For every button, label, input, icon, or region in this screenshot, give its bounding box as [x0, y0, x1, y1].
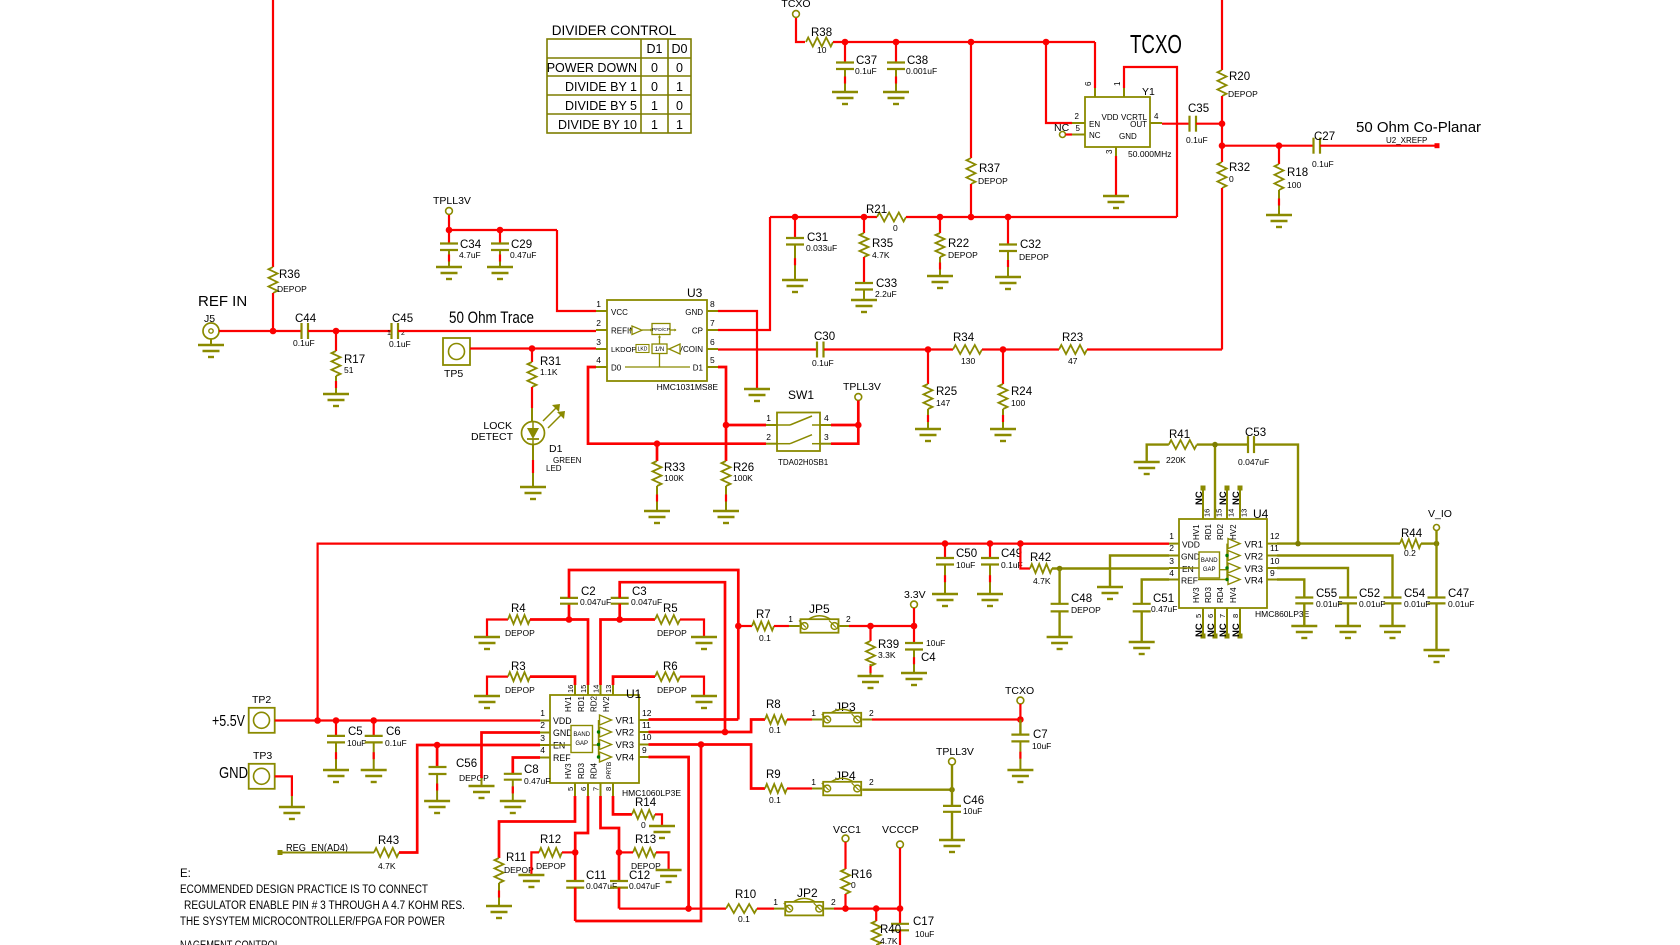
- svg-text:HV2: HV2: [1229, 524, 1238, 540]
- svg-text:C30: C30: [814, 331, 835, 343]
- ground for C5: [323, 769, 349, 771]
- wire R36 to REF IN line: [272, 293, 274, 331]
- svg-text:R14: R14: [635, 797, 657, 809]
- svg-text:5: 5: [710, 355, 715, 365]
- U3 pin 6 VCOIN stub: [707, 348, 718, 350]
- svg-text:U4: U4: [1253, 507, 1269, 521]
- U3 internal PFD/CP block: [642, 329, 652, 331]
- ground for R24: [990, 428, 1016, 430]
- wire R13 to ground: [656, 852, 669, 869]
- wire C27 to U2_XREFP terminal: [1320, 145, 1437, 147]
- node junction C50: [942, 540, 949, 547]
- svg-text:16: 16: [566, 685, 575, 693]
- U4 right pin stubs: [1267, 543, 1277, 545]
- svg-text:LED: LED: [546, 464, 562, 473]
- U3 pin 8 GND stub: [707, 310, 718, 312]
- svg-text:2: 2: [846, 614, 851, 624]
- svg-text:HV2: HV2: [602, 696, 611, 712]
- svg-text:3: 3: [1169, 556, 1174, 566]
- svg-text:1: 1: [651, 118, 658, 132]
- svg-text:CP: CP: [692, 327, 703, 336]
- ground for Y1: [1103, 195, 1129, 197]
- LED D1: [522, 422, 545, 445]
- U3 pin 7 CP stub: [707, 329, 718, 331]
- wire U3 D1 pin5 to SW1 pin1: [718, 367, 726, 425]
- wire C11 bottom to VR3 return: [574, 888, 577, 921]
- U1 band gap block: [571, 726, 593, 753]
- capacitor C6: [373, 721, 375, 736]
- capacitor C31: [794, 217, 796, 238]
- wire R43 to EN riser: [399, 745, 540, 853]
- node junction C38: [893, 39, 900, 46]
- wire R20 to junction: [1221, 96, 1223, 162]
- SW1 pin stubs and numbers: [766, 424, 777, 426]
- svg-text:TCXO: TCXO: [1130, 29, 1182, 59]
- node junction R22: [937, 214, 944, 221]
- wire U3 D0 pin4 to SW1 pin2: [588, 367, 766, 444]
- wire R6 to ground: [680, 677, 704, 695]
- svg-text:C50: C50: [956, 548, 977, 560]
- svg-text:1: 1: [811, 777, 816, 787]
- svg-text:DEPOP: DEPOP: [1019, 252, 1049, 262]
- svg-text:VDD: VDD: [1182, 540, 1200, 550]
- ground for R5: [691, 636, 717, 638]
- wire Y1 VDD pin6 up to rail: [1094, 42, 1096, 88]
- node junction C37: [842, 39, 849, 46]
- svg-text:10uF: 10uF: [347, 738, 366, 748]
- svg-text:GND: GND: [685, 308, 703, 317]
- svg-text:DEPOP: DEPOP: [657, 685, 687, 695]
- wire EN branch to Y1 pin2: [1046, 42, 1072, 123]
- wire JP5 pin2 to 3.3V: [849, 625, 914, 627]
- svg-text:R12: R12: [540, 834, 561, 846]
- wire vertical net to R36 from top edge: [272, 0, 274, 267]
- wire RD2 riser through C3 junction to R5: [601, 620, 656, 686]
- svg-text:R36: R36: [279, 269, 300, 281]
- svg-text:R40: R40: [880, 924, 901, 936]
- wire R37 to loop bus: [970, 184, 972, 217]
- svg-text:0.47uF: 0.47uF: [1151, 604, 1177, 614]
- ground for C32: [995, 276, 1021, 278]
- svg-text:VR3: VR3: [616, 740, 634, 751]
- wire VCC1 to R16: [844, 842, 846, 869]
- wire U4 VR2 pin11 to C54: [1277, 556, 1393, 598]
- svg-text:R34: R34: [953, 332, 975, 344]
- resistor R23: [1059, 345, 1087, 354]
- svg-text:4: 4: [596, 355, 601, 365]
- ground for U4 GND: [1097, 586, 1123, 588]
- capacitor C5: [335, 721, 337, 736]
- ground for R18: [1266, 214, 1292, 216]
- svg-text:8: 8: [710, 299, 715, 309]
- svg-text:C44: C44: [295, 313, 317, 325]
- svg-text:D1: D1: [647, 42, 663, 56]
- svg-text:0: 0: [676, 99, 683, 113]
- wire R34 to R23: [982, 348, 1059, 350]
- wire junction to C45: [336, 330, 391, 332]
- resistor R18: [1278, 146, 1280, 164]
- svg-text:12: 12: [1270, 531, 1280, 541]
- U3 pin 1 VCC stub: [596, 310, 607, 312]
- svg-text:1: 1: [773, 897, 778, 907]
- svg-text:10uF: 10uF: [956, 560, 975, 570]
- svg-text:0.047uF: 0.047uF: [580, 597, 611, 607]
- capacitor C48: [1058, 569, 1060, 604]
- resistor R7: [752, 622, 774, 631]
- node junction C34: [446, 227, 453, 234]
- resistor R3: [508, 672, 530, 681]
- svg-text:PRTB: PRTB: [606, 762, 613, 779]
- U1 bottom pin stubs: [574, 783, 576, 796]
- svg-text:NC: NC: [1231, 623, 1242, 637]
- wire U4 VR1 pin12 to R44: [1277, 542, 1400, 544]
- node junction 3.3V/C4: [911, 623, 918, 630]
- svg-text:TP2: TP2: [252, 694, 271, 706]
- svg-text:NC: NC: [1218, 623, 1229, 637]
- wire ground to R41: [1147, 445, 1169, 462]
- resistor R37: [970, 42, 972, 158]
- svg-text:R42: R42: [1030, 552, 1051, 564]
- SW1 pole 1 lever: [777, 424, 790, 426]
- svg-text:DEPOP: DEPOP: [277, 284, 307, 294]
- svg-text:DEPOP: DEPOP: [504, 865, 534, 875]
- wire TCXO port to junction: [1019, 704, 1021, 720]
- wire LED to ground: [532, 444, 534, 460]
- svg-text:JP2: JP2: [797, 886, 818, 900]
- ground for C46: [939, 839, 965, 841]
- regulator U4 HMC860LP3E body: [1179, 519, 1267, 608]
- ground for R12: [518, 874, 544, 876]
- svg-text:NC: NC: [1218, 491, 1229, 505]
- ground for R41: [1134, 461, 1160, 463]
- resistor R34: [953, 345, 982, 354]
- svg-text:1/N: 1/N: [655, 347, 664, 353]
- svg-text:RD1: RD1: [1204, 523, 1213, 540]
- wire R8 to JP3: [787, 718, 812, 720]
- svg-text:4.7K: 4.7K: [872, 250, 890, 260]
- node junction C32: [1005, 214, 1012, 221]
- svg-text:5: 5: [1194, 614, 1203, 618]
- svg-text:TPLL3V: TPLL3V: [433, 195, 471, 207]
- svg-text:147: 147: [936, 398, 950, 408]
- wire JP3 pin2 to TCXO node: [872, 718, 1020, 720]
- svg-text:7: 7: [1218, 614, 1227, 618]
- wire R12 to junction: [562, 851, 575, 853]
- wire R16 to net: [844, 894, 846, 909]
- svg-text:9: 9: [642, 745, 647, 755]
- svg-text:2: 2: [831, 897, 836, 907]
- ground for R3: [474, 695, 500, 697]
- U3 internal LKD box: [636, 345, 649, 353]
- node junction R40: [873, 905, 880, 912]
- wire U1 VR1 pin12 to riser: [649, 718, 739, 721]
- svg-text:DEPOP: DEPOP: [505, 685, 535, 695]
- wire R33 to ground: [656, 486, 658, 510]
- test point TP5: [443, 338, 470, 365]
- svg-text:0.1uF: 0.1uF: [293, 338, 315, 348]
- wire D1 down to R26: [725, 425, 728, 461]
- U4 left pin stubs: [1169, 543, 1179, 545]
- U1 right pin stubs: [639, 719, 649, 721]
- svg-text:RD3: RD3: [1204, 586, 1213, 603]
- svg-text:EN: EN: [1089, 120, 1100, 129]
- svg-text:1: 1: [1169, 531, 1174, 541]
- svg-text:R21: R21: [866, 204, 887, 216]
- wire U1 VR4 pin9 drop: [649, 757, 689, 909]
- svg-text:0: 0: [676, 61, 683, 75]
- node junction R18: [1276, 142, 1283, 149]
- wire TCXO port to R38: [796, 18, 805, 42]
- svg-text:R10: R10: [735, 889, 756, 901]
- svg-text:10uF: 10uF: [1032, 741, 1051, 751]
- svg-text:DIVIDER CONTROL: DIVIDER CONTROL: [552, 23, 677, 38]
- capacitor C45: [390, 323, 392, 339]
- wire TP3 to ground: [275, 776, 292, 796]
- svg-text:R22: R22: [948, 238, 969, 250]
- regulator U1 HMC1060LP3E body: [550, 695, 639, 783]
- U3 internal divider feedback wires: [659, 336, 661, 344]
- wire SW1 pin3 to TPLL3V: [831, 425, 858, 444]
- svg-text:BAND: BAND: [573, 732, 590, 738]
- wire R38 to Y1 VDD rail: [833, 41, 1095, 43]
- wire C3 top to VR2 riser: [620, 582, 725, 732]
- node junction TPLL3V/C46: [949, 787, 955, 793]
- capacitor C32: [1007, 217, 1009, 244]
- switch SW1 TDA02H0SB1: [777, 413, 820, 452]
- svg-text:TCXO: TCXO: [781, 0, 810, 10]
- svg-text:R11: R11: [506, 852, 526, 864]
- U3 internal VCOIN buffer triangle: [669, 344, 680, 354]
- Y1 pin 4 OUT stub: [1150, 122, 1162, 124]
- svg-text:REF IN: REF IN: [198, 293, 247, 310]
- resistor R44: [1400, 539, 1421, 548]
- wire C30 to R34: [824, 348, 953, 350]
- wire U1 HV3 pin5 to R11: [499, 796, 575, 858]
- svg-text:LKDOP: LKDOP: [611, 345, 636, 354]
- svg-text:0.1uF: 0.1uF: [1312, 159, 1334, 169]
- svg-text:2: 2: [540, 720, 545, 730]
- svg-text:0: 0: [1229, 174, 1234, 184]
- wire R11 to ground: [498, 883, 500, 905]
- capacitor C4: [905, 642, 923, 644]
- wire R25 to ground: [927, 409, 929, 428]
- svg-text:1: 1: [766, 413, 771, 423]
- svg-text:R4: R4: [511, 603, 526, 615]
- ground for C4: [901, 672, 927, 674]
- wire R10 to JP2: [757, 907, 774, 909]
- svg-text:50 Ohm Trace: 50 Ohm Trace: [449, 308, 534, 327]
- ground for LED D1: [520, 486, 546, 488]
- capacitor C52: [1339, 596, 1357, 598]
- svg-text:3: 3: [1105, 149, 1114, 154]
- node junction VCCCP/C17: [897, 905, 904, 912]
- ground for R11: [486, 905, 512, 907]
- svg-text:0.1: 0.1: [769, 725, 781, 735]
- svg-text:0.2: 0.2: [1404, 548, 1416, 558]
- wire TP2 to U1 VDD pin1: [275, 719, 540, 721]
- svg-text:0.47uF: 0.47uF: [524, 776, 550, 786]
- svg-text:2: 2: [766, 432, 771, 442]
- svg-text:GND: GND: [1119, 132, 1137, 141]
- svg-text:0.1: 0.1: [738, 914, 750, 924]
- svg-text:VR4: VR4: [1245, 576, 1263, 587]
- resistor R16: [841, 869, 850, 894]
- wire R7 tap to resistor: [738, 625, 752, 627]
- resistor R42: [1030, 564, 1052, 573]
- resistor R35: [863, 217, 865, 233]
- node junction C3/R5: [616, 616, 623, 623]
- wire R3 to HV1 pin16: [530, 677, 575, 685]
- capacitor C33: [855, 282, 873, 284]
- svg-text:DEPOP: DEPOP: [505, 628, 535, 638]
- ground for R26: [713, 510, 739, 512]
- wire ground to R4: [487, 620, 508, 637]
- svg-text:4: 4: [1169, 568, 1174, 578]
- node junction R25: [925, 346, 932, 353]
- ground for R14: [649, 825, 675, 827]
- svg-text:0: 0: [641, 820, 646, 830]
- svg-text:13: 13: [604, 685, 613, 693]
- ground for C52: [1335, 625, 1361, 627]
- ground for R22: [927, 275, 953, 277]
- wire VR3 drop to C11 bottom: [575, 745, 701, 922]
- svg-text:GAP: GAP: [575, 741, 588, 747]
- ground for R25: [915, 428, 941, 430]
- svg-text:50.000MHz: 50.000MHz: [1128, 149, 1171, 159]
- node junction C35/R20/R32: [1219, 120, 1226, 127]
- resistor R41: [1169, 440, 1197, 449]
- wire ground to R3: [487, 677, 508, 695]
- svg-text:VCCCP: VCCCP: [882, 824, 919, 836]
- svg-text:100: 100: [1011, 398, 1025, 408]
- svg-text:REF: REF: [1181, 576, 1198, 586]
- node junction C44/R17: [333, 328, 340, 335]
- ground for C49: [977, 593, 1003, 595]
- ground for C34: [436, 266, 462, 268]
- U1 top pin stubs: [574, 684, 576, 695]
- svg-text:VR4: VR4: [616, 753, 634, 764]
- U4 band gap block: [1199, 552, 1220, 578]
- svg-text:C49: C49: [1001, 548, 1022, 560]
- svg-text:0.1uF: 0.1uF: [389, 339, 411, 349]
- Y1 pin 3 GND stub: [1115, 147, 1117, 156]
- svg-text:OUT: OUT: [1130, 120, 1147, 129]
- svg-text:6: 6: [1206, 614, 1215, 618]
- wire JP2 pin2 to VCCCP: [834, 907, 900, 909]
- svg-text:C7: C7: [1033, 729, 1048, 741]
- svg-text:0.1uF: 0.1uF: [812, 358, 834, 368]
- svg-text:0.033uF: 0.033uF: [806, 243, 837, 253]
- wire R32 down to R23 return: [1221, 188, 1223, 350]
- svg-text:HMC1031MS8E: HMC1031MS8E: [657, 382, 719, 392]
- capacitor C53: [1247, 436, 1249, 453]
- svg-text:TCXO: TCXO: [1005, 685, 1034, 697]
- svg-text:1: 1: [676, 80, 683, 94]
- svg-text:DIVIDE BY 10: DIVIDE BY 10: [558, 118, 637, 132]
- svg-text:VR3: VR3: [1245, 564, 1263, 575]
- svg-text:4.7K: 4.7K: [1033, 576, 1051, 586]
- node junction R12/C11: [572, 849, 579, 856]
- wire R39 to ground: [870, 664, 872, 675]
- node junction EN branch: [1043, 39, 1050, 46]
- svg-text:C17: C17: [913, 916, 934, 928]
- ground for C31: [782, 279, 808, 281]
- wire TPLL3V to rail: [448, 215, 450, 230]
- svg-text:100: 100: [1287, 180, 1301, 190]
- node junction C49: [987, 540, 994, 547]
- svg-text:HV1: HV1: [564, 696, 573, 712]
- svg-text:4: 4: [540, 745, 545, 755]
- svg-text:R32: R32: [1229, 162, 1250, 174]
- node junction R13/C12: [616, 849, 623, 856]
- svg-text:D1: D1: [693, 364, 704, 373]
- svg-text:16: 16: [1203, 509, 1212, 517]
- resistor R43: [374, 848, 399, 857]
- svg-text:TP3: TP3: [253, 750, 272, 762]
- svg-text:0.1uF: 0.1uF: [385, 738, 407, 748]
- svg-text:R6: R6: [663, 661, 678, 673]
- svg-text:HV4: HV4: [1229, 587, 1238, 603]
- svg-text:C32: C32: [1020, 239, 1041, 251]
- svg-text:3.3K: 3.3K: [878, 650, 896, 660]
- svg-text:DEPOP: DEPOP: [978, 176, 1008, 186]
- svg-text:1: 1: [540, 708, 545, 718]
- node junction R24: [1000, 346, 1007, 353]
- svg-text:15: 15: [1215, 509, 1224, 517]
- resistor R40: [875, 909, 877, 921]
- node junction V_IO/C47: [1434, 541, 1440, 547]
- svg-text:C8: C8: [524, 764, 539, 776]
- svg-text:R20: R20: [1229, 71, 1250, 83]
- node junction R42 branch: [1017, 540, 1024, 547]
- svg-text:4: 4: [824, 413, 829, 423]
- svg-text:13: 13: [1240, 509, 1249, 517]
- wire VDD bus to U4 pin1: [1020, 542, 1169, 544]
- svg-text:R18: R18: [1287, 167, 1308, 179]
- capacitor C46: [951, 790, 953, 806]
- svg-text:REGULATOR ENABLE PIN # 3 THROU: REGULATOR ENABLE PIN # 3 THROUGH A 4.7 K…: [184, 900, 465, 912]
- wire C3 bottom to junction: [618, 604, 621, 620]
- ground for R33: [644, 510, 670, 512]
- wire R17 to ground: [335, 376, 337, 393]
- node junction C48 on EN: [1057, 566, 1063, 572]
- node junction VR3 riser: [698, 741, 705, 748]
- capacitor C29: [499, 230, 501, 243]
- capacitor C8: [504, 773, 522, 775]
- svg-text:0.001uF: 0.001uF: [906, 66, 937, 76]
- svg-text:GND: GND: [1181, 552, 1200, 562]
- svg-text:Y1: Y1: [1142, 86, 1155, 98]
- svg-text:4.7K: 4.7K: [880, 936, 898, 945]
- resistor R33: [656, 444, 659, 461]
- svg-text:0.01uF: 0.01uF: [1448, 599, 1474, 609]
- resistor R31: [531, 349, 533, 363]
- svg-text:V_IO: V_IO: [1428, 508, 1452, 520]
- svg-text:1: 1: [596, 299, 601, 309]
- capacitor C3: [611, 597, 629, 599]
- wire R42 to EN pin3: [1052, 567, 1169, 569]
- wire VCCCP port down: [899, 848, 901, 924]
- svg-text:VDD: VDD: [1102, 113, 1119, 122]
- svg-text:7: 7: [592, 787, 601, 791]
- wire Y1 VCRTL pin1 loop to bus: [1124, 67, 1177, 217]
- svg-text:HMC860LP3E: HMC860LP3E: [1255, 609, 1310, 619]
- ground for C55: [1291, 625, 1317, 627]
- svg-text:C45: C45: [392, 313, 413, 325]
- svg-text:5: 5: [1076, 124, 1081, 133]
- wire +5.5V riser to top bus: [318, 544, 1169, 721]
- svg-text:EN: EN: [1182, 564, 1194, 574]
